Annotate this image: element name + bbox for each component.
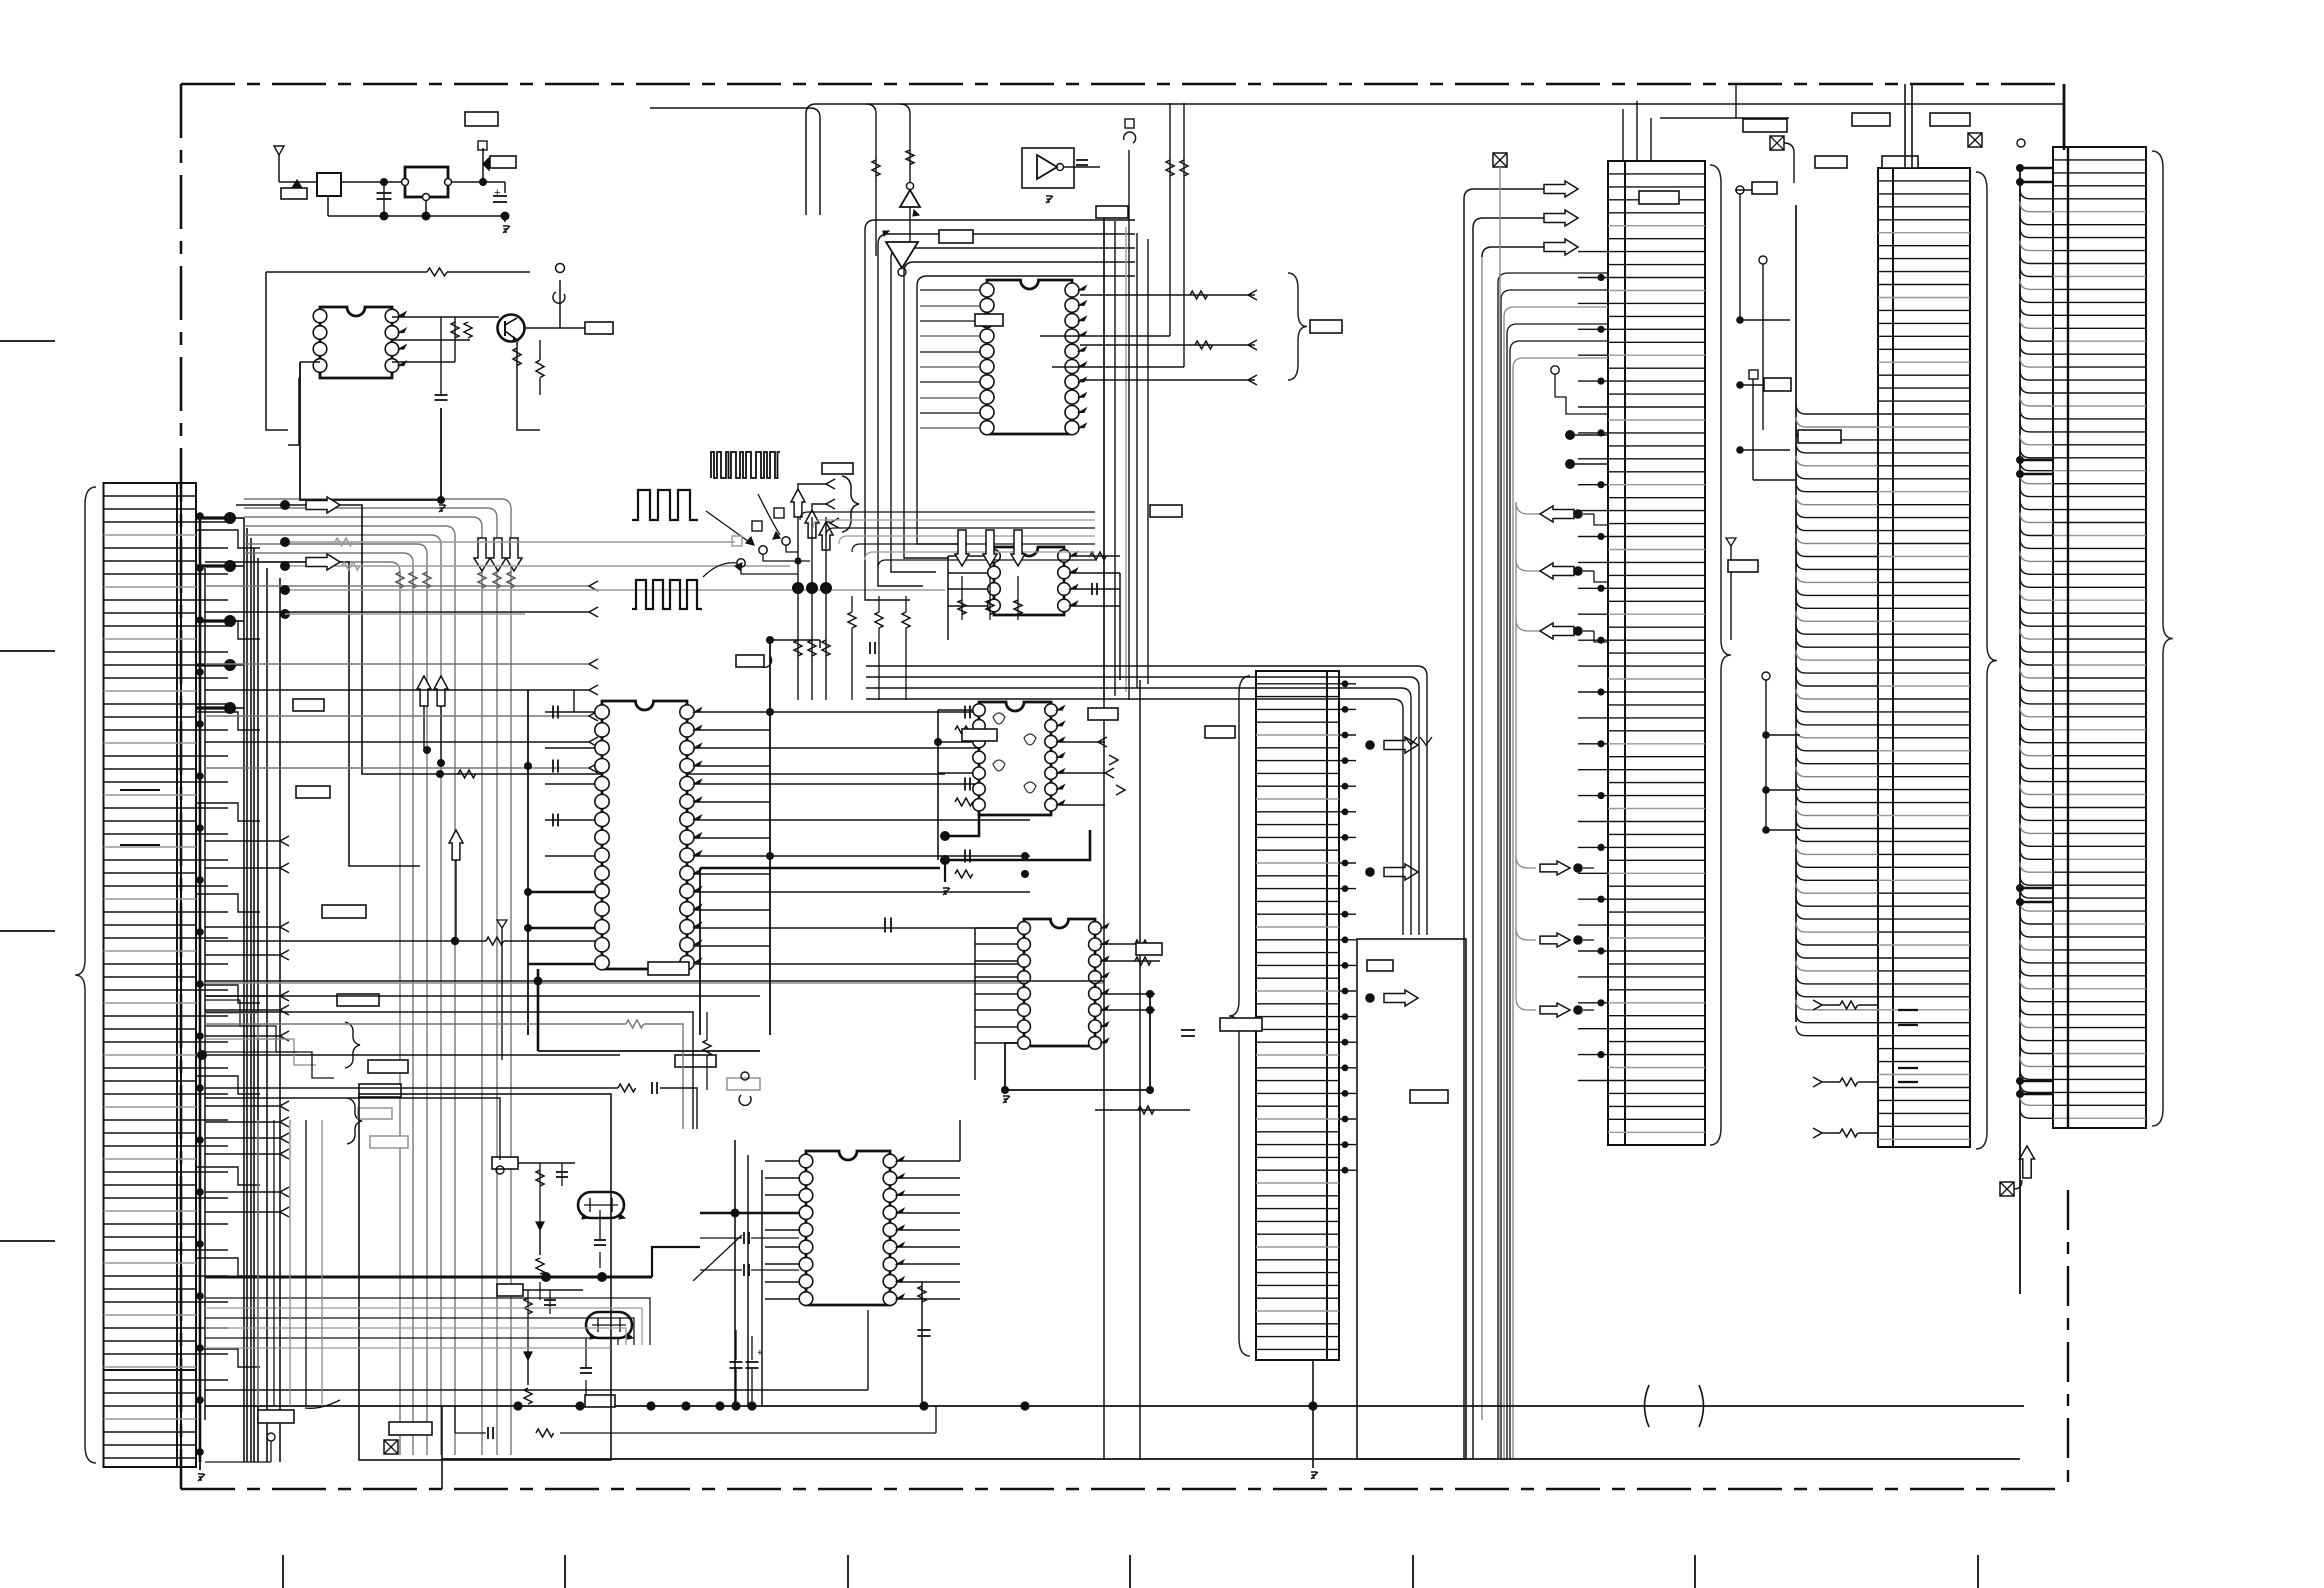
wire bundle center vertical [1104,215,1148,1460]
waveform burst glyph [711,452,780,478]
wires right of CN2 brace [1735,84,1737,118]
inverter B top-center [883,231,918,276]
antenna symbol [274,146,284,182]
big dots column CN1 [196,512,244,714]
IC U3 (20-pin DIP top-center) [980,280,1086,435]
bottom labels [205,1400,432,1462]
transistor pair Q3 (oval) [586,1312,633,1339]
wires right of U3 [1080,290,1257,385]
ferrite bead FB1 [279,180,317,199]
output node wires [328,141,516,233]
connector CN1 [104,483,197,1467]
brace right of U3 [1288,273,1342,380]
wire routing mid-left steps [205,1000,334,1078]
resistor links into CN3 low [1812,1000,1878,1138]
pointer wires from waveforms [703,494,780,577]
op-amp U1 (8-pin DIP top-left) [313,307,406,378]
wire bundle into CN2 upper pins [1498,273,1608,1458]
wire stubs CN5 right [1339,680,1356,1173]
labels above CN4 [1882,113,2025,168]
wire risers top pair [1040,103,1188,367]
svg-text:+: + [757,1348,763,1359]
wire bus at CN1 right side [196,512,228,1462]
inverter A top-center [900,146,920,246]
connector CN4 [2053,147,2146,1128]
wires between CN2 CN3 [1726,136,1800,834]
wires U5 [934,710,1125,895]
wire routing lower-left [205,920,650,1406]
marks inside CN3 [1898,1010,1918,1082]
brace left of CN1 [75,487,96,1463]
labels between CN2 CN3 [1728,113,1890,572]
regulator IC1 [402,167,452,221]
small squares center [732,508,790,567]
capacitor C1 [377,178,392,221]
marks inside CN1 [120,790,160,845]
wires at up-arrows [741,479,839,700]
wires U6 [975,928,1195,1114]
brace left of CN5 [1229,676,1250,1356]
wires right of U2 [694,636,1030,1035]
wires upper mid diagonal routing [800,512,1095,568]
small brace mid-left A [345,1022,408,1073]
IC U7 (18-pin DIP bottom-center) [799,1151,904,1305]
wires CN1 to center [197,836,1104,1217]
caps into U7 left pins [693,1232,799,1281]
parentheses mark [1645,1385,1704,1427]
bottom caps row [455,1406,936,1439]
wire drops above CN3 [1905,84,1912,168]
wires center to box top [866,666,1432,935]
wire risers above U3 [866,104,1136,700]
square wave glyph B [632,580,702,609]
up arrows center [791,489,833,550]
brace right of CN2 [1710,165,1731,1145]
arrow up near CN4 bottom [2000,1146,2035,1196]
brace right of CN4 [2152,151,2173,1126]
small brace mid-left B [347,1098,408,1148]
IC U4 (8-pin DIP) [988,547,1078,615]
discretes around Q3 [497,1284,592,1404]
wire risers right of box [1464,189,1544,1459]
wire bundle vertical left-center [244,518,280,1462]
transistor Q1 [498,315,525,342]
box right of CN5 [1357,939,1466,1459]
wire top bus [650,84,2064,215]
wire bottom rails [205,1310,2024,1489]
wires gray triple left [280,537,945,619]
IC U2 (24-pin DIP center-left) [595,701,701,970]
ground at CN5 bottom [1311,1360,1318,1479]
filter component [317,173,405,216]
wire loops around U3 [865,220,1135,600]
wires U4 [948,552,1120,680]
svg-text:+: + [494,187,500,199]
buffer U9 with feedback [1022,148,1100,203]
fold marks left edge [0,341,55,1241]
wire fan into CN4 [2016,164,2053,1294]
wires around U1 [266,268,530,512]
wires from CN1 top arrows [205,497,340,570]
up arrows pair mid-left [417,676,448,767]
fold marks bottom edge [283,1555,1978,1588]
signal arrows at CN2 [1516,181,1608,1017]
ground bottom left [198,1462,205,1481]
wire fan into CN3 [1796,205,1878,1036]
wires below U2 [205,969,1104,1129]
label boxes assorted [293,191,1679,1407]
electrolytic caps bottom center [730,1330,764,1406]
connector CN2 [1608,161,1705,1145]
wires left of U2 [524,690,595,1035]
down arrows on bus [474,538,522,571]
brace small right of arrows [842,476,859,532]
connector CN3 [1878,168,1970,1147]
discretes around Q2 [492,1157,606,1300]
wire stubs CN2 left [1578,252,1608,1081]
wires U7 right [897,1120,960,1406]
connector CN5 [1256,671,1339,1360]
label top [465,112,498,126]
long rail from arrow1 [331,505,945,866]
IC U5 (quad gate 14-pin) [973,702,1064,815]
wires CN1 upper fan [205,581,598,773]
wires U7 left [205,1140,799,1406]
board outline frame (dash-dot) [181,84,2068,1489]
brace right of CN3 [1976,172,1997,1149]
wire stubs CN1 [196,530,260,1367]
wires at Q1 [513,264,613,431]
up arrow left-mid [449,830,463,940]
transistor pair Q2 (oval) [578,1192,625,1219]
arrows at CN5 [1365,737,1418,1006]
IC U6 (16-pin DIP) [1018,919,1109,1049]
square wave glyph A [632,490,698,520]
heavy links CN4 [2020,167,2053,170]
ferrite xbox mid [1493,153,1507,1458]
resistor column trio [848,596,910,700]
box outline bottom-left [359,1094,611,1460]
wire bundle gray verticals [244,499,515,1455]
heavy bus U5 to left [700,868,940,1035]
down arrows mid [955,530,1025,620]
